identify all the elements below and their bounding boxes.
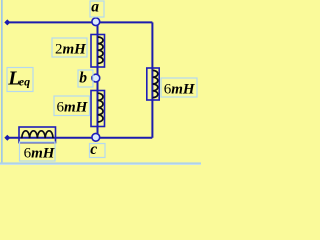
node b terminal circle [92, 74, 100, 82]
inductor L2 6mH coil [98, 93, 103, 122]
inductor L1 2mH coil [98, 37, 103, 63]
svg-text:6mH: 6mH [164, 81, 196, 97]
junction dot bottom-left [4, 135, 10, 141]
inductor L1 2mH body box [91, 35, 105, 68]
wire middle branch vertical a-b-c [97, 22, 99, 137]
label Leq equivalent inductance [7, 68, 33, 92]
left page border line [1, 0, 3, 165]
bottom page border light row [0, 163, 201, 166]
inductor L3 6mH (right branch) body box [147, 68, 159, 100]
svg-text:c: c [90, 141, 97, 158]
inductor L2 6mH (middle) body box [91, 91, 105, 127]
svg-text:eq: eq [19, 75, 30, 89]
svg-text:6mH: 6mH [24, 145, 56, 161]
value label 6mH (bottom) [20, 142, 56, 161]
svg-text:b: b [79, 69, 87, 86]
inductor L4 6mH coil [22, 131, 53, 138]
value label 6mH (right branch) [161, 78, 197, 97]
inductor L4 6mH (bottom horizontal) body box [19, 127, 56, 143]
junction dot top-left [4, 19, 10, 25]
value label 2mH [52, 38, 87, 58]
bottom page border line [0, 162, 201, 164]
svg-text:a: a [91, 0, 99, 16]
wire top: from left junction to top-right corner [8, 21, 153, 23]
node a terminal circle [92, 18, 100, 26]
node c label box [90, 141, 106, 158]
node c terminal circle [92, 133, 100, 141]
svg-text:6mH: 6mH [57, 99, 89, 115]
value label 6mH (middle) [54, 96, 90, 116]
svg-text:2mH: 2mH [55, 42, 87, 58]
wire right branch vertical [151, 22, 153, 137]
inductor L3 6mH coil [153, 70, 158, 97]
wire bottom: from left junction to right branch [8, 137, 153, 139]
node a label box [90, 0, 104, 17]
node b label box [78, 69, 93, 87]
